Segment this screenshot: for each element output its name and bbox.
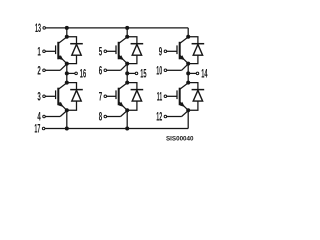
svg-text:13: 13 [35, 21, 41, 35]
terminal pin 8 (aux emitter) [104, 115, 107, 118]
wire: emitter sense pin 4 [45, 116, 60, 118]
wire: lower emitter down to negative bus phase 1 [66, 110, 68, 128]
diode D1T freewheel: triangle (anode, pointing up) [72, 44, 81, 55]
wire: emitter sense pin 8 [107, 116, 121, 118]
diode D3T freewheel: cathode branch wire [188, 37, 198, 44]
transistor phase 2 bottom IGBT: emitter diagonal with arrow [119, 102, 127, 110]
svg-text:14: 14 [201, 66, 208, 80]
wire: gate lead pin 7 [107, 95, 116, 97]
transistor phase 3 bottom IGBT: emitter diagonal with arrow [180, 102, 188, 110]
diode D2B freewheel: cathode branch wire [127, 83, 137, 90]
wire: emitter to output node phase 1 [66, 64, 68, 74]
svg-text:16: 16 [80, 66, 87, 80]
wire: sense diagonal pin 2 [60, 64, 67, 70]
terminal pin 15 (phase output) [135, 72, 138, 75]
svg-text:15: 15 [140, 66, 147, 80]
wire: gate lead pin 5 [107, 50, 116, 52]
wire: gate lead pin 1 [45, 50, 55, 52]
wire: sense diagonal pin 8 [121, 111, 128, 117]
wire: sense diagonal pin 6 [121, 64, 128, 70]
wire: gate lead pin 11 [167, 95, 177, 97]
node: phase 1 top IGBT collector/diode junction [65, 35, 69, 39]
diode D1T freewheel: cathode branch wire [67, 37, 77, 44]
transistor phase 1 bottom IGBT: emitter diagonal with arrow [59, 102, 67, 110]
terminal pin 6 (aux emitter) [104, 69, 107, 72]
node: phase 1 top IGBT emitter junction [65, 62, 69, 66]
node: phase 3 top IGBT collector/diode junction [186, 35, 190, 39]
wire: output node down to lower collector phase 2 [126, 73, 128, 82]
diode D2T freewheel: cathode branch wire [127, 37, 137, 44]
diode D3T freewheel: triangle (anode, pointing up) [193, 44, 202, 55]
terminal pin 17 (negative DC bus) [42, 127, 45, 130]
transistor phase 3 bottom IGBT: gate bar [176, 90, 178, 99]
wire: top collector bus from pin 13 [46, 27, 189, 29]
node: bus junction phase 2 [125, 26, 129, 30]
diode D2B freewheel: anode wire to emitter node [127, 101, 137, 110]
wire: emitter sense pin 2 [45, 69, 60, 71]
terminal pin 2 (aux emitter) [43, 69, 46, 72]
diode D2T freewheel: anode wire to emitter node [127, 55, 137, 63]
svg-text:2: 2 [37, 63, 41, 77]
transistor phase 3 top IGBT: collector diagonal [180, 37, 188, 43]
svg-text:SIS00040: SIS00040 [166, 136, 194, 143]
diode D1T freewheel: cathode bar [70, 43, 83, 45]
wire: output stub pin 16 [68, 72, 74, 74]
node: phase 1 bottom IGBT emitter junction [65, 108, 69, 112]
wire: emitter to output node phase 2 [126, 64, 128, 74]
terminal pin 4 (aux emitter) [43, 115, 46, 118]
wire: bus corner drop to phase 3 [187, 28, 189, 37]
wire: lower emitter down to negative bus phase 2 [126, 110, 128, 128]
wire: sense diagonal pin 12 [182, 111, 189, 117]
terminal pin 5 (gate) [104, 50, 107, 53]
diode D1B freewheel: cathode bar [70, 89, 83, 91]
transistor phase 1 top IGBT: emitter diagonal with arrow [59, 56, 67, 64]
transistor phase 2 top IGBT: gate bar [115, 45, 117, 54]
terminal pin 11 (gate) [164, 95, 167, 98]
node: phase 2 bottom IGBT emitter junction [125, 108, 129, 112]
transistor phase 1 bottom IGBT: channel bar [57, 88, 59, 106]
transistor phase 1 bottom IGBT: collector diagonal [59, 83, 67, 89]
node: bottom bus junction phase 1 [65, 127, 69, 131]
wire: sense diagonal pin 10 [182, 64, 189, 70]
diode D3T freewheel: cathode bar [192, 43, 205, 45]
diode D1T freewheel: anode wire to emitter node [67, 55, 77, 63]
terminal pin 1 (gate) [43, 50, 46, 53]
node: phase 2 bottom IGBT collector/diode junction [125, 81, 129, 85]
wire: output stub pin 14 [190, 72, 196, 74]
node: phase 3 AC output junction [186, 71, 190, 75]
wire: output node down to lower collector phase 1 [66, 73, 68, 82]
transistor phase 3 top IGBT: emitter diagonal with arrow [180, 56, 188, 64]
node: phase 2 AC output junction [125, 71, 129, 75]
node: phase 1 AC output junction [65, 71, 69, 75]
diode D1B freewheel: cathode branch wire [67, 83, 77, 90]
wire: gate lead pin 3 [45, 95, 55, 97]
transistor phase 3 bottom IGBT: collector diagonal [180, 83, 188, 89]
diode D3B freewheel: cathode bar [192, 89, 205, 91]
transistor phase 3 bottom IGBT: channel bar [179, 88, 181, 106]
transistor phase 2 top IGBT: channel bar [118, 42, 120, 60]
transistor phase 2 top IGBT: emitter diagonal with arrow [119, 56, 127, 64]
svg-text:1: 1 [37, 44, 41, 58]
diode D2T freewheel: cathode bar [131, 43, 144, 45]
wire: emitter sense pin 6 [107, 69, 121, 71]
wire: emitter sense pin 10 [167, 69, 182, 71]
transistor phase 2 top IGBT: collector diagonal [119, 37, 127, 43]
transistor phase 1 top IGBT: gate bar [55, 45, 57, 54]
node: phase 3 bottom IGBT emitter junction [186, 108, 190, 112]
transistor phase 1 bottom IGBT: gate bar [55, 90, 57, 99]
svg-text:9: 9 [159, 44, 163, 58]
svg-text:7: 7 [99, 89, 103, 103]
terminal pin 9 (gate) [164, 50, 167, 53]
wire: emitter to output node phase 3 [187, 64, 189, 74]
wire: gate lead pin 9 [167, 50, 177, 52]
transistor phase 2 bottom IGBT: gate bar [115, 90, 117, 99]
terminal pin 16 (phase output) [75, 72, 78, 75]
svg-text:11: 11 [157, 89, 163, 103]
diode D2B freewheel: cathode bar [131, 89, 144, 91]
wire: emitter sense pin 12 [167, 116, 182, 118]
node: phase 3 top IGBT emitter junction [186, 62, 190, 66]
wire: collector drop phase 2 [126, 28, 128, 37]
terminal pin 10 (aux emitter) [164, 69, 167, 72]
wire: bottom emitter bus to pin 17 [45, 128, 188, 130]
svg-text:6: 6 [99, 63, 103, 77]
svg-text:8: 8 [99, 110, 103, 124]
node: phase 2 top IGBT emitter junction [125, 62, 129, 66]
wire: output node down to lower collector phase 3 [187, 73, 189, 82]
node: bottom bus junction phase 2 [125, 127, 129, 131]
transistor phase 2 bottom IGBT: collector diagonal [119, 83, 127, 89]
terminal pin 13 (positive DC bus) [43, 27, 46, 30]
svg-text:3: 3 [37, 89, 41, 103]
transistor phase 2 bottom IGBT: channel bar [118, 88, 120, 106]
svg-text:5: 5 [99, 44, 103, 58]
diode D3B freewheel: anode wire to emitter node [188, 101, 198, 110]
wire: lower emitter down to negative bus phase 3 [187, 110, 189, 128]
terminal pin 7 (gate) [104, 95, 107, 98]
wire: sense diagonal pin 4 [60, 111, 67, 117]
diode D2B freewheel: triangle (anode, pointing up) [132, 90, 141, 101]
diode D3B freewheel: cathode branch wire [188, 83, 198, 90]
terminal pin 14 (phase output) [196, 72, 199, 75]
transistor phase 3 top IGBT: channel bar [179, 42, 181, 60]
diode D1B freewheel: triangle (anode, pointing up) [72, 90, 81, 101]
node: bus junction phase 1 [65, 26, 69, 30]
node: phase 3 bottom IGBT collector/diode junction [186, 81, 190, 85]
diode D2T freewheel: triangle (anode, pointing up) [132, 44, 141, 55]
svg-text:17: 17 [34, 122, 40, 136]
wire: collector drop phase 1 [66, 28, 68, 37]
transistor phase 1 top IGBT: collector diagonal [59, 37, 67, 43]
svg-text:12: 12 [156, 110, 162, 124]
transistor phase 1 top IGBT: channel bar [57, 42, 59, 60]
diode D1B freewheel: anode wire to emitter node [67, 101, 77, 110]
diode D3B freewheel: triangle (anode, pointing up) [193, 90, 202, 101]
svg-text:10: 10 [156, 63, 162, 77]
wire: output stub pin 15 [129, 72, 135, 74]
diode D3T freewheel: anode wire to emitter node [188, 55, 198, 63]
node: phase 1 bottom IGBT collector/diode junction [65, 81, 69, 85]
node: phase 2 top IGBT collector/diode junction [125, 35, 129, 39]
transistor phase 3 top IGBT: gate bar [176, 45, 178, 54]
terminal pin 3 (gate) [43, 95, 46, 98]
terminal pin 12 (aux emitter) [164, 115, 167, 118]
